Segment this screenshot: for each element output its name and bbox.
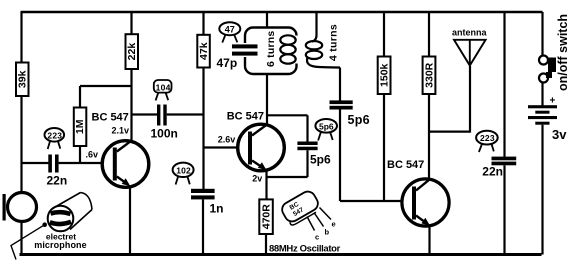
svg-text:330R: 330R: [423, 62, 435, 88]
svg-text:e: e: [332, 220, 336, 229]
svg-text:BC 547: BC 547: [92, 112, 129, 124]
pictorial TO-92 package BC547: [279, 189, 335, 242]
wire Q2 emitter: [265, 170, 267, 200]
wire switch column top: [541, 12, 543, 56]
svg-text:5p6: 5p6: [348, 113, 370, 127]
svg-text:47p: 47p: [217, 56, 238, 70]
wire Q2 base: [204, 146, 249, 148]
switch S1 on/off: [539, 56, 556, 83]
capacitor C7 22n: [492, 157, 517, 166]
svg-text:102: 102: [176, 166, 191, 176]
capacitor C4 47p: [232, 44, 258, 55]
svg-text:4 turns: 4 turns: [327, 24, 339, 61]
svg-text:22n: 22n: [482, 165, 503, 179]
wire tank top feed: [266, 12, 268, 28]
wire Q3 collector column: [428, 94, 430, 179]
transistor Q3 BC547: [402, 179, 449, 226]
wire 1M top horizontal: [80, 85, 132, 87]
svg-text:microphone: microphone: [34, 240, 87, 250]
wire Q2 collector up to tank: [266, 74, 268, 125]
wire antenna branch: [429, 131, 470, 133]
pictorial electret microphone drawing: [48, 193, 92, 232]
svg-text:BC 547: BC 547: [227, 111, 264, 123]
ceramic cap icon 104: [154, 80, 172, 100]
ceramic cap icon 5p6: [315, 119, 337, 141]
resistor R2 1M: [74, 108, 87, 147]
wire Q3 base line: [340, 200, 412, 202]
wire 470R to ground: [265, 234, 267, 255]
resistor R4 47k: [197, 35, 210, 68]
wire feedback top: [267, 114, 308, 116]
wire bottom ground rail: [20, 253, 542, 256]
resistor R6 330R: [423, 57, 436, 95]
wire 1M bottom stub: [79, 146, 81, 163]
wire Q3 emitter to ground: [428, 225, 430, 255]
capacitor C3 1n: [191, 189, 215, 200]
label electret microphone: [34, 232, 87, 251]
svg-text:100n: 100n: [151, 127, 178, 141]
svg-text:39k: 39k: [16, 70, 28, 88]
ceramic cap icon 223: [45, 128, 65, 149]
resistor R7 470R: [259, 199, 273, 234]
resistor R1 39k: [16, 63, 29, 97]
wire Q1 emitter to ground: [129, 186, 131, 255]
svg-text:antenna: antenna: [452, 28, 488, 38]
wire left column bottom: [20, 222, 22, 255]
svg-text:223: 223: [480, 133, 495, 143]
wire 47k column middle: [202, 68, 204, 190]
svg-text:3v: 3v: [552, 127, 567, 142]
svg-text:150k: 150k: [378, 63, 390, 87]
wire top supply rail: [21, 11, 543, 14]
svg-text:+: +: [550, 96, 556, 107]
wire 22n2 column bottom: [503, 165, 505, 254]
wire feedback bottom horizontal: [267, 176, 308, 178]
svg-text:6 turns: 6 turns: [265, 31, 277, 67]
wire 1n to ground: [202, 199, 204, 254]
inductor L1 6 turns: [280, 35, 295, 63]
svg-text:2.6v: 2.6v: [218, 134, 236, 144]
svg-text:2.1v: 2.1v: [112, 125, 130, 135]
microphone MIC1: [3, 193, 37, 222]
svg-text:470R: 470R: [260, 204, 272, 230]
transistor Q2 BC547: [238, 124, 285, 171]
svg-text:22n: 22n: [47, 174, 68, 188]
ceramic cap icon 47: [219, 22, 240, 42]
svg-text:22k: 22k: [126, 43, 138, 61]
wire switch to battery: [541, 83, 543, 106]
svg-text:5p6: 5p6: [310, 153, 331, 167]
wire 150k column top: [383, 12, 385, 57]
wire left column middle: [20, 96, 22, 193]
svg-text:2v: 2v: [252, 174, 262, 184]
transistor Q1 BC547: [102, 141, 149, 188]
wire L2 to C6: [339, 68, 341, 101]
wire 100n right: [167, 113, 204, 115]
leader line to mic symbol: [11, 222, 47, 259]
svg-text:b: b: [325, 228, 330, 237]
ceramic cap icon 102: [173, 163, 194, 185]
wire 100n left: [132, 113, 158, 115]
wire battery to ground: [541, 125, 543, 255]
wire 1M top stub: [79, 86, 81, 108]
wire Q1 collector column: [130, 69, 132, 142]
resistor R5 150k: [378, 57, 391, 95]
inductor L2 4 turns: [306, 12, 340, 68]
wire 22n2 column top: [503, 12, 505, 157]
capacitor C1 22n: [48, 155, 58, 173]
svg-text:BC 547: BC 547: [387, 159, 424, 171]
svg-text:88MHz Oscillator: 88MHz Oscillator: [269, 243, 341, 254]
svg-text:223: 223: [47, 130, 62, 140]
svg-text:104: 104: [156, 82, 171, 92]
capacitor C5 5p6 feedback: [297, 142, 317, 151]
capacitor C6 5p6: [330, 100, 353, 109]
svg-text:1M: 1M: [74, 119, 86, 134]
svg-text:5p6: 5p6: [319, 121, 334, 131]
resistor R3 22k: [126, 34, 139, 69]
wire 150k bottom: [383, 94, 385, 201]
wire 47k column top: [202, 12, 204, 35]
wire C6 to base line Q3: [339, 110, 341, 202]
svg-text:47k: 47k: [198, 42, 210, 60]
wire left column top: [20, 12, 22, 63]
tank loop: [240, 28, 302, 75]
antenna ANT1: [454, 40, 486, 133]
svg-text:.6v: .6v: [86, 150, 99, 160]
svg-text:1n: 1n: [210, 202, 224, 216]
capacitor C2 100n: [157, 105, 167, 126]
wire base line Q1 left: [22, 162, 49, 164]
wire feedback right down: [306, 115, 308, 141]
ceramic cap icon 223 right: [476, 131, 498, 152]
wire 22k column top: [130, 12, 132, 35]
svg-text:on/off switch: on/off switch: [556, 14, 567, 91]
battery B1 3v: [528, 105, 557, 125]
wire base line Q1 right: [59, 162, 113, 164]
wire 330R column top: [428, 12, 430, 57]
svg-text:47: 47: [225, 24, 235, 34]
svg-text:c: c: [315, 233, 319, 242]
wire feedback bottom vertical: [306, 150, 308, 177]
